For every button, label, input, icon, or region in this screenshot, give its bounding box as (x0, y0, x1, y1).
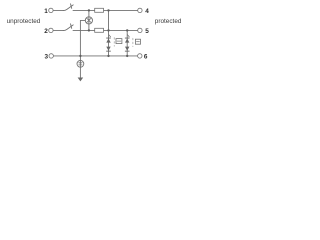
svg-text:2: 2 (44, 28, 48, 35)
svg-text:5: 5 (145, 28, 149, 35)
svg-text:1: 1 (44, 8, 48, 15)
svg-text:3: 3 (45, 54, 49, 61)
svg-text:protected: protected (155, 18, 182, 25)
svg-text:4: 4 (145, 8, 149, 15)
svg-text:6: 6 (144, 54, 148, 61)
svg-text:unprotected: unprotected (7, 18, 41, 25)
